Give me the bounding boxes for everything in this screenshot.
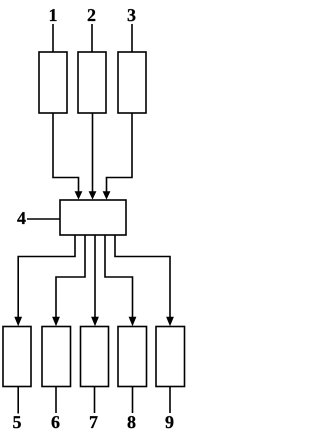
wire block-4 to block-8 [105,235,133,319]
wire block-5 to label-5 [17,387,19,414]
arrowhead into block-4 from block-1 [75,191,83,199]
node 1 label [50,9,57,21]
block 9 [156,327,185,387]
wire block-8 to label-8 [132,387,134,414]
node 6 label [52,416,60,428]
arrowhead into block-4 from block-2 [89,191,97,199]
block 2 [78,52,106,113]
wire label-2 to block-2 [91,24,93,52]
block 5 [3,327,31,387]
arrowhead into block-8 [129,317,137,326]
wire block-6 to label-6 [55,387,57,414]
node 8 label [128,416,136,428]
node 5 label [13,416,21,428]
node 4 label [17,212,25,224]
wire block-9 to label-9 [169,387,171,414]
node 2 label [88,9,95,21]
node 3 label [128,9,136,21]
block 3 [118,52,146,113]
block 1 [39,52,67,113]
wire label-1 to block-1 [52,24,54,52]
arrowhead into block-5 [14,317,22,326]
node 7 label [90,416,98,428]
wire block-1 to block-4 [53,113,79,192]
wire label-3 to block-3 [131,24,133,52]
wire block-3 to block-4 [107,113,133,192]
wire block-2 to block-4 [92,113,94,192]
block 6 [42,327,71,387]
wire block-4 to block-9 [115,235,170,318]
block 8 [118,327,147,387]
wire block-4 to block-6 [56,235,85,319]
arrowhead into block-6 [52,317,60,326]
block 4 [60,200,126,235]
node 9 label [165,416,173,428]
wire block-4 to block-5 [18,235,75,318]
arrowhead into block-9 [166,317,174,326]
wire label-4 to block-4 [27,218,60,220]
wire block-7 to label-7 [94,387,96,414]
block 7 [81,327,109,387]
arrowhead into block-7 [91,317,99,326]
wire block-4 to block-7 [94,235,96,319]
arrowhead into block-4 from block-3 [103,191,111,199]
